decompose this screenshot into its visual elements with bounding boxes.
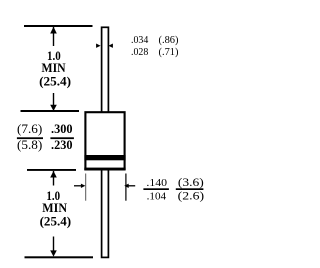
fraction bar .140/.104 [143,188,169,190]
body diameter right extension line [125,174,127,201]
fraction bar (7.6)/(5.8) [17,137,43,139]
svg-text:(25.4): (25.4) [40,213,72,228]
fraction bar (3.6)/(2.6) [176,188,204,190]
diode body [85,112,124,169]
svg-text:(7.6): (7.6) [17,122,42,136]
svg-text:(2.6): (2.6) [178,190,205,202]
upper dimension up-arrowhead [50,27,57,34]
body diameter right arrow [124,184,129,188]
body diameter left arrow [74,185,82,187]
lower lead-length dimension line, top segment [53,171,54,186]
upper lead-length dimension line, bottom segment [53,93,54,106]
svg-text:.104: .104 [147,190,167,202]
lower dimension down-arrowhead [50,250,57,256]
svg-text:.140: .140 [146,177,167,189]
upper lead-length dimension line, top segment [53,27,54,46]
svg-text:.230: .230 [51,138,73,152]
svg-text:(.86): (.86) [159,34,179,46]
lower dimension up-arrowhead [50,171,57,178]
bottom reference line (lower lead end) [25,256,94,258]
lead diameter right arrowhead [108,44,113,48]
lead (axial wire) [102,27,109,257]
svg-text:(5.8): (5.8) [17,138,42,152]
body-top extension line [21,110,80,112]
body bottom edge (thicker) [84,168,125,171]
body diameter left extension line [85,174,87,201]
svg-text:.300: .300 [51,122,73,136]
cathode band [84,155,125,160]
lead diameter left arrowhead [96,44,101,48]
svg-text:(.71): (.71) [159,46,179,58]
body-bottom extension line [27,169,76,171]
top reference line (upper lead end) [24,25,93,27]
lower lead-length dimension line, bottom segment [53,237,54,252]
fraction bar .300/.230 [50,137,74,139]
svg-text:(25.4): (25.4) [39,73,71,88]
svg-text:.034: .034 [131,34,149,46]
upper dimension down-arrowhead [50,105,57,111]
svg-text:.028: .028 [131,46,148,58]
svg-text:(3.6): (3.6) [178,177,204,189]
